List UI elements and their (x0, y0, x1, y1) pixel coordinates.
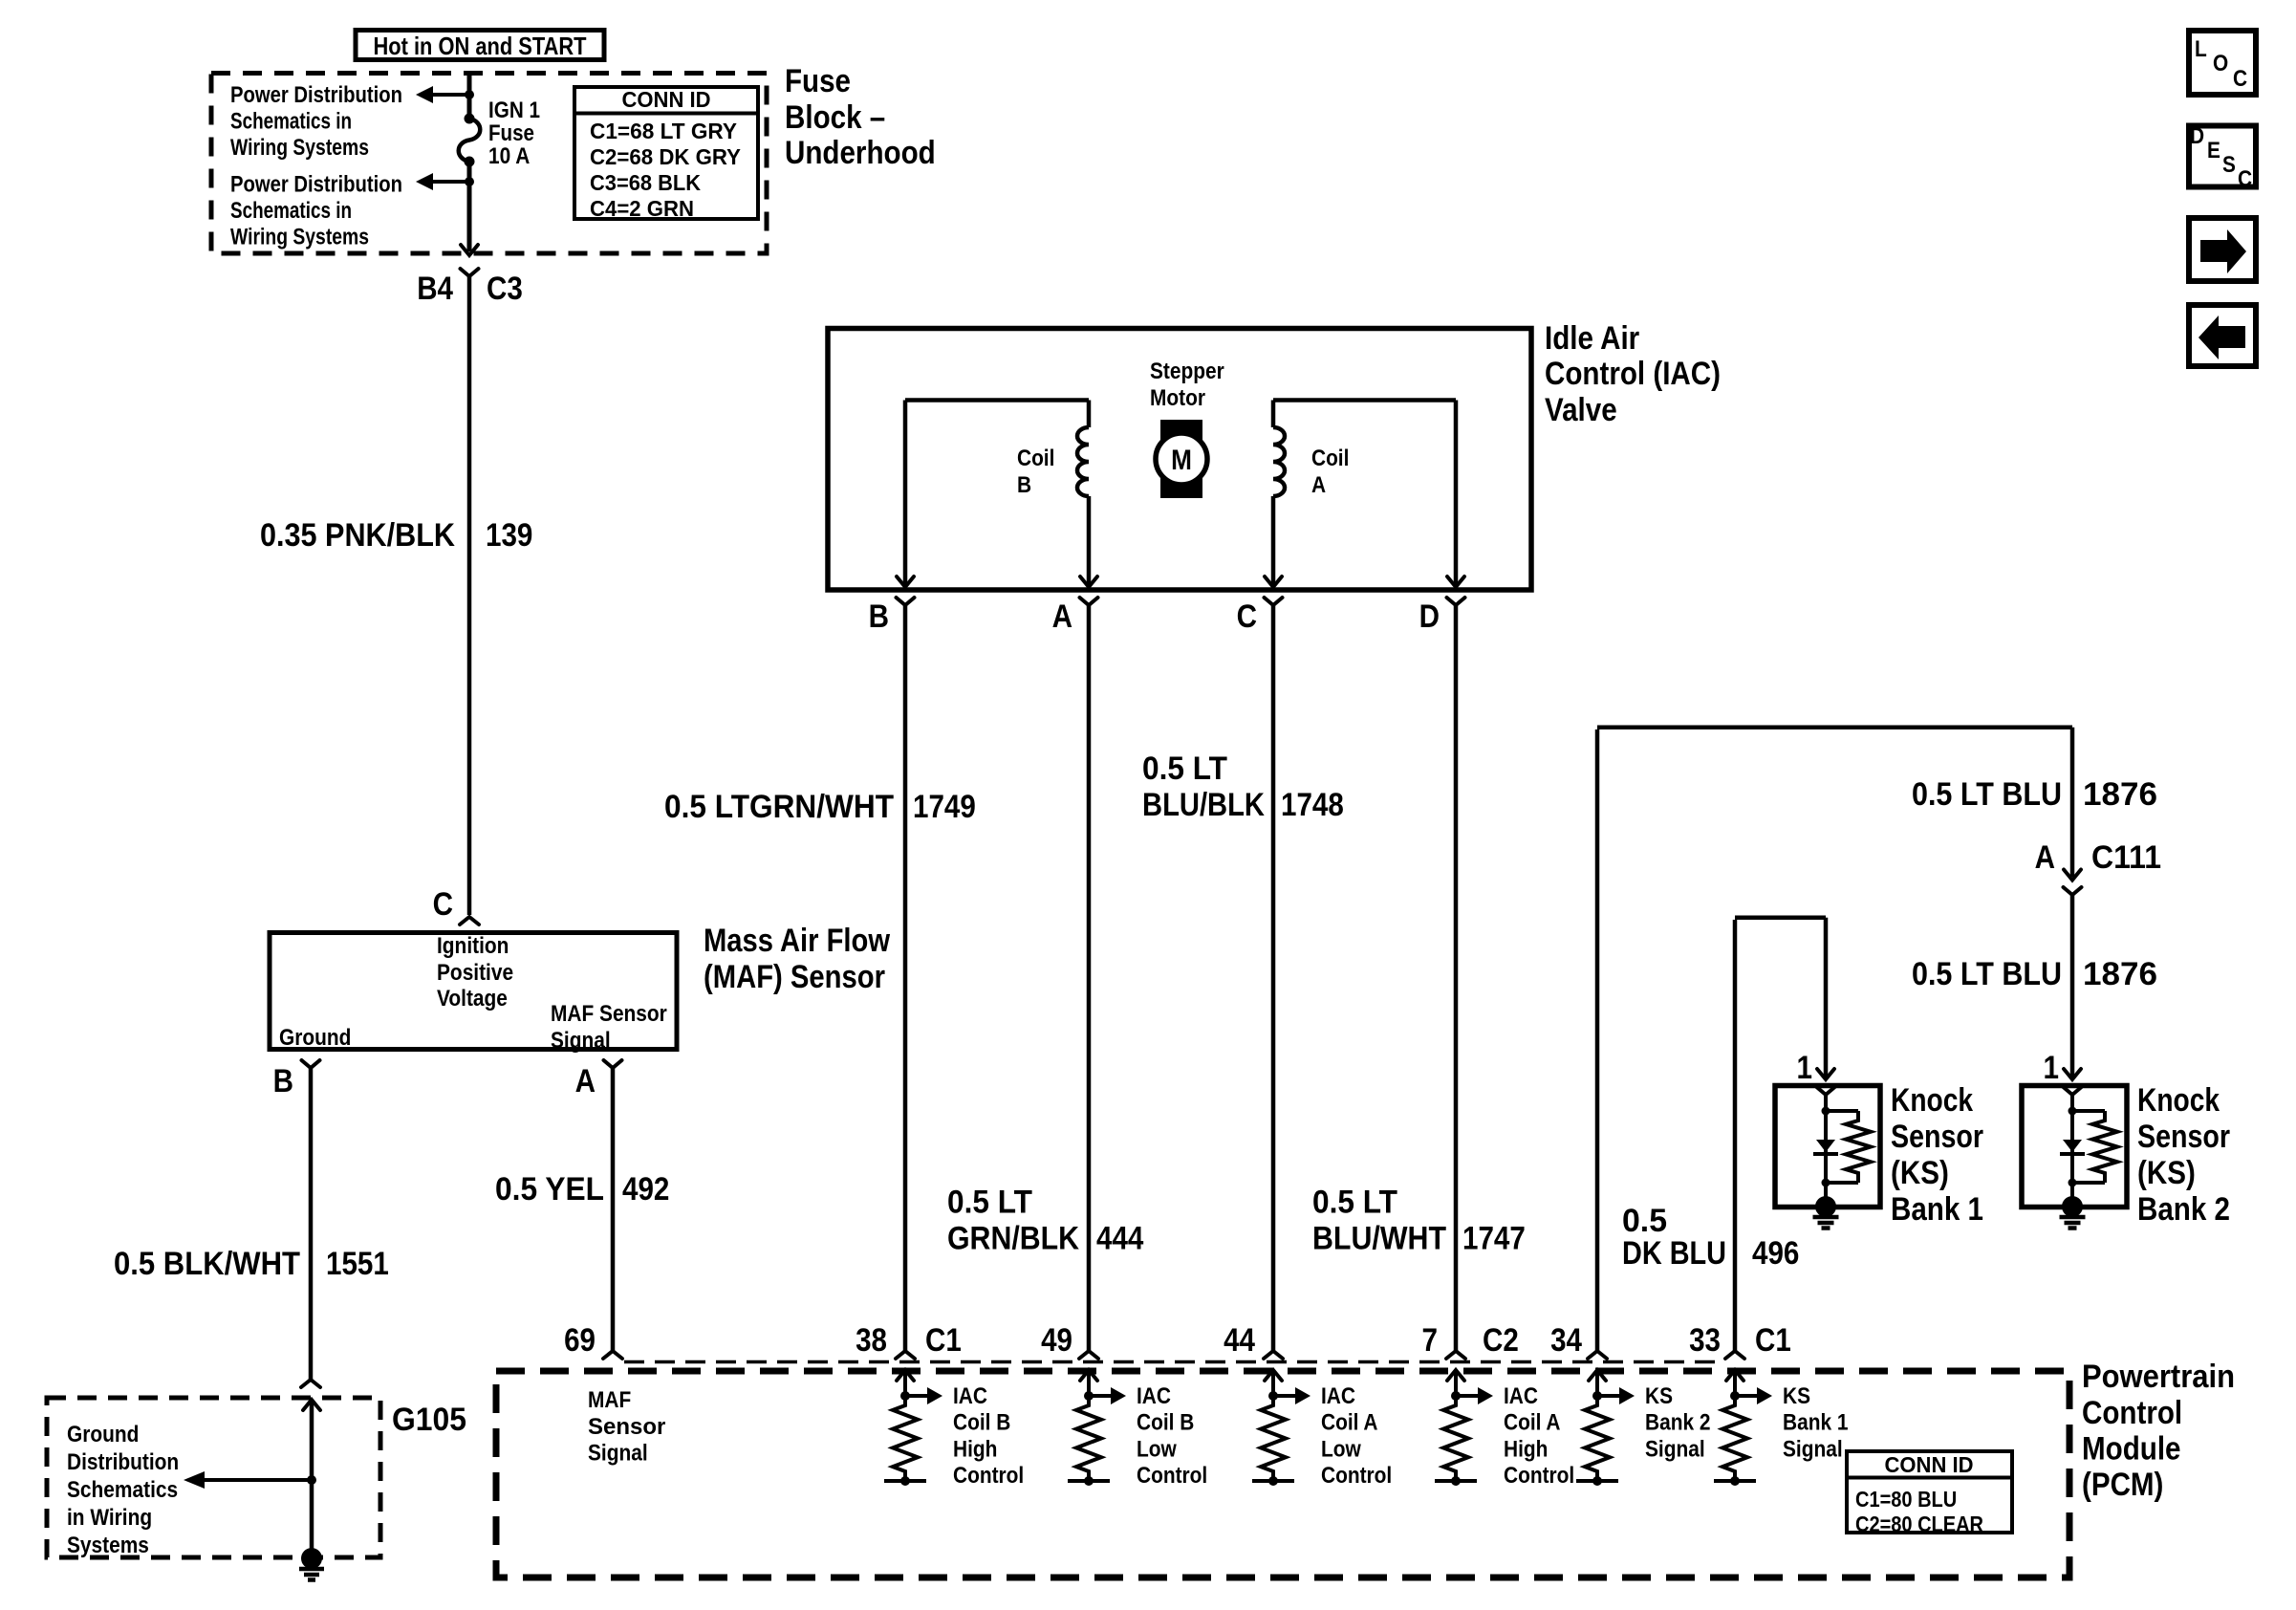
svg-text:Mass Air Flow: Mass Air Flow (704, 923, 890, 959)
svg-text:MAF: MAF (588, 1387, 631, 1413)
svg-text:IAC: IAC (1321, 1383, 1355, 1409)
svg-text:Systems: Systems (67, 1533, 149, 1558)
svg-text:KS: KS (1783, 1383, 1810, 1409)
svg-text:Control: Control (1321, 1463, 1392, 1489)
svg-text:Coil: Coil (1017, 446, 1054, 471)
svg-text:Low: Low (1321, 1436, 1361, 1462)
svg-text:IGN 1: IGN 1 (488, 98, 540, 123)
svg-text:34: 34 (1550, 1322, 1582, 1359)
svg-text:Fuse: Fuse (785, 63, 851, 99)
svg-text:0.5 LT BLU: 0.5 LT BLU (1912, 776, 2062, 813)
svg-text:0.5 BLK/WHT: 0.5 BLK/WHT (114, 1246, 300, 1282)
svg-text:O: O (2213, 51, 2228, 76)
svg-text:Signal: Signal (1783, 1436, 1843, 1462)
svg-text:Schematics in: Schematics in (230, 109, 352, 135)
svg-text:A: A (575, 1063, 596, 1099)
svg-text:0.35 PNK/BLK: 0.35 PNK/BLK (260, 517, 455, 554)
svg-text:(MAF) Sensor: (MAF) Sensor (704, 959, 885, 995)
svg-text:0.5 LTGRN/WHT: 0.5 LTGRN/WHT (664, 789, 894, 825)
svg-text:Wiring Systems: Wiring Systems (230, 225, 369, 250)
svg-text:Control: Control (953, 1463, 1024, 1489)
svg-text:C: C (1237, 598, 1257, 635)
svg-text:Control (IAC): Control (IAC) (1545, 356, 1721, 392)
svg-text:B: B (869, 598, 889, 635)
svg-text:1876: 1876 (2083, 776, 2157, 813)
svg-text:0.5 LT BLU: 0.5 LT BLU (1912, 956, 2062, 992)
svg-text:492: 492 (622, 1171, 669, 1207)
svg-text:C4=2 GRN: C4=2 GRN (590, 196, 694, 221)
svg-text:Power Distribution: Power Distribution (230, 172, 402, 198)
svg-text:(PCM): (PCM) (2082, 1467, 2163, 1503)
svg-text:49: 49 (1041, 1322, 1072, 1359)
svg-text:Low: Low (1137, 1436, 1177, 1462)
svg-text:IAC: IAC (1137, 1383, 1171, 1409)
svg-text:Motor: Motor (1150, 385, 1205, 411)
svg-text:High: High (1504, 1436, 1548, 1462)
svg-text:(KS): (KS) (2137, 1155, 2196, 1191)
svg-text:D: D (1419, 598, 1440, 635)
svg-text:1747: 1747 (1462, 1221, 1526, 1257)
svg-text:0.5 YEL: 0.5 YEL (495, 1171, 604, 1207)
svg-text:A: A (2035, 839, 2055, 876)
svg-text:Bank 2: Bank 2 (2137, 1191, 2230, 1228)
svg-text:G105: G105 (392, 1402, 466, 1438)
svg-text:C3=68 BLK: C3=68 BLK (590, 170, 701, 195)
svg-text:0.5 LT: 0.5 LT (1312, 1185, 1397, 1221)
svg-text:Bank 1: Bank 1 (1783, 1410, 1849, 1436)
svg-text:Stepper: Stepper (1150, 359, 1224, 384)
svg-text:Distribution: Distribution (67, 1449, 179, 1475)
svg-text:Sensor: Sensor (2137, 1119, 2230, 1155)
svg-text:Voltage: Voltage (437, 986, 508, 1012)
svg-text:GRN/BLK: GRN/BLK (947, 1221, 1079, 1257)
svg-text:1748: 1748 (1281, 787, 1344, 823)
svg-text:Sensor: Sensor (1891, 1119, 1983, 1155)
svg-text:Hot in ON and START: Hot in ON and START (374, 32, 587, 60)
svg-text:A: A (1052, 598, 1072, 635)
svg-text:BLU/BLK: BLU/BLK (1142, 787, 1265, 823)
svg-text:E: E (2207, 138, 2220, 163)
svg-text:High: High (953, 1436, 997, 1462)
svg-text:1551: 1551 (326, 1246, 389, 1282)
svg-text:Ignition: Ignition (437, 933, 509, 959)
svg-text:Sensor: Sensor (588, 1414, 665, 1440)
svg-text:C3: C3 (487, 271, 523, 307)
svg-text:C111: C111 (2091, 839, 2161, 876)
svg-text:C1: C1 (925, 1322, 962, 1359)
svg-text:IAC: IAC (1504, 1383, 1538, 1409)
svg-text:139: 139 (486, 517, 532, 554)
svg-text:Control: Control (1137, 1463, 1207, 1489)
svg-text:B: B (273, 1063, 293, 1099)
svg-text:Ground: Ground (279, 1025, 351, 1051)
svg-text:444: 444 (1096, 1221, 1143, 1257)
svg-text:Control: Control (2082, 1395, 2182, 1431)
svg-text:Block –: Block – (785, 99, 885, 136)
svg-text:38: 38 (856, 1322, 887, 1359)
svg-text:Knock: Knock (1891, 1082, 1973, 1119)
svg-text:Powertrain: Powertrain (2082, 1359, 2235, 1395)
svg-text:44: 44 (1224, 1322, 1255, 1359)
svg-text:1876: 1876 (2083, 956, 2157, 992)
svg-text:C: C (2233, 66, 2247, 92)
svg-text:Fuse: Fuse (488, 120, 534, 146)
svg-text:MAF Sensor: MAF Sensor (551, 1001, 667, 1027)
svg-text:1: 1 (1797, 1050, 1813, 1086)
svg-text:1749: 1749 (913, 789, 976, 825)
svg-text:Module: Module (2082, 1431, 2181, 1468)
svg-text:Valve: Valve (1545, 392, 1617, 428)
svg-text:L: L (2195, 36, 2207, 62)
svg-text:C: C (2238, 166, 2252, 192)
svg-text:Signal: Signal (551, 1028, 611, 1054)
svg-text:in Wiring: in Wiring (67, 1505, 152, 1531)
svg-text:33: 33 (1689, 1322, 1721, 1359)
svg-text:7: 7 (1422, 1322, 1439, 1359)
svg-text:Wiring Systems: Wiring Systems (230, 135, 369, 161)
svg-text:69: 69 (564, 1322, 596, 1359)
svg-text:D: D (2190, 123, 2204, 149)
svg-text:Ground: Ground (67, 1422, 139, 1447)
svg-text:Positive: Positive (437, 960, 513, 986)
svg-text:Signal: Signal (1645, 1436, 1705, 1462)
svg-text:C2: C2 (1483, 1322, 1519, 1359)
svg-text:0.5: 0.5 (1622, 1203, 1667, 1239)
svg-text:CONN ID: CONN ID (1885, 1452, 1974, 1477)
svg-text:C1=68 LT GRY: C1=68 LT GRY (590, 119, 737, 143)
svg-text:Schematics: Schematics (67, 1477, 178, 1503)
svg-text:1: 1 (2044, 1050, 2060, 1086)
svg-text:M: M (1171, 445, 1192, 476)
svg-text:C: C (433, 886, 453, 923)
svg-text:Bank 2: Bank 2 (1645, 1410, 1711, 1436)
svg-text:Idle Air: Idle Air (1545, 320, 1639, 357)
svg-text:C1=80 BLU: C1=80 BLU (1855, 1487, 1957, 1512)
svg-text:Signal: Signal (588, 1441, 648, 1467)
svg-text:C2=68 DK GRY: C2=68 DK GRY (590, 144, 741, 169)
svg-text:BLU/WHT: BLU/WHT (1312, 1221, 1446, 1257)
svg-text:B: B (1017, 472, 1031, 498)
svg-text:Bank 1: Bank 1 (1891, 1191, 1983, 1228)
svg-text:(KS): (KS) (1891, 1155, 1949, 1191)
svg-text:0.5 LT: 0.5 LT (1142, 751, 1227, 787)
svg-text:Coil A: Coil A (1321, 1410, 1378, 1436)
svg-text:496: 496 (1752, 1235, 1799, 1272)
svg-text:KS: KS (1645, 1383, 1673, 1409)
svg-text:Power Distribution: Power Distribution (230, 82, 402, 108)
svg-text:C2=80 CLEAR: C2=80 CLEAR (1855, 1512, 1983, 1536)
svg-text:Coil B: Coil B (1137, 1410, 1194, 1436)
svg-text:0.5 LT: 0.5 LT (947, 1185, 1032, 1221)
svg-text:Coil A: Coil A (1504, 1410, 1561, 1436)
svg-text:Knock: Knock (2137, 1082, 2220, 1119)
svg-text:A: A (1311, 472, 1326, 498)
svg-text:10 A: 10 A (488, 143, 530, 169)
svg-text:IAC: IAC (953, 1383, 987, 1409)
svg-text:B4: B4 (417, 271, 453, 307)
svg-text:S: S (2222, 152, 2236, 178)
svg-text:CONN ID: CONN ID (622, 87, 711, 112)
svg-text:C1: C1 (1755, 1322, 1791, 1359)
svg-text:Underhood: Underhood (785, 135, 936, 171)
svg-text:Control: Control (1504, 1463, 1574, 1489)
svg-text:DK BLU: DK BLU (1622, 1235, 1726, 1272)
svg-text:Coil: Coil (1311, 446, 1349, 471)
svg-text:Schematics in: Schematics in (230, 198, 352, 224)
svg-text:Coil B: Coil B (953, 1410, 1010, 1436)
